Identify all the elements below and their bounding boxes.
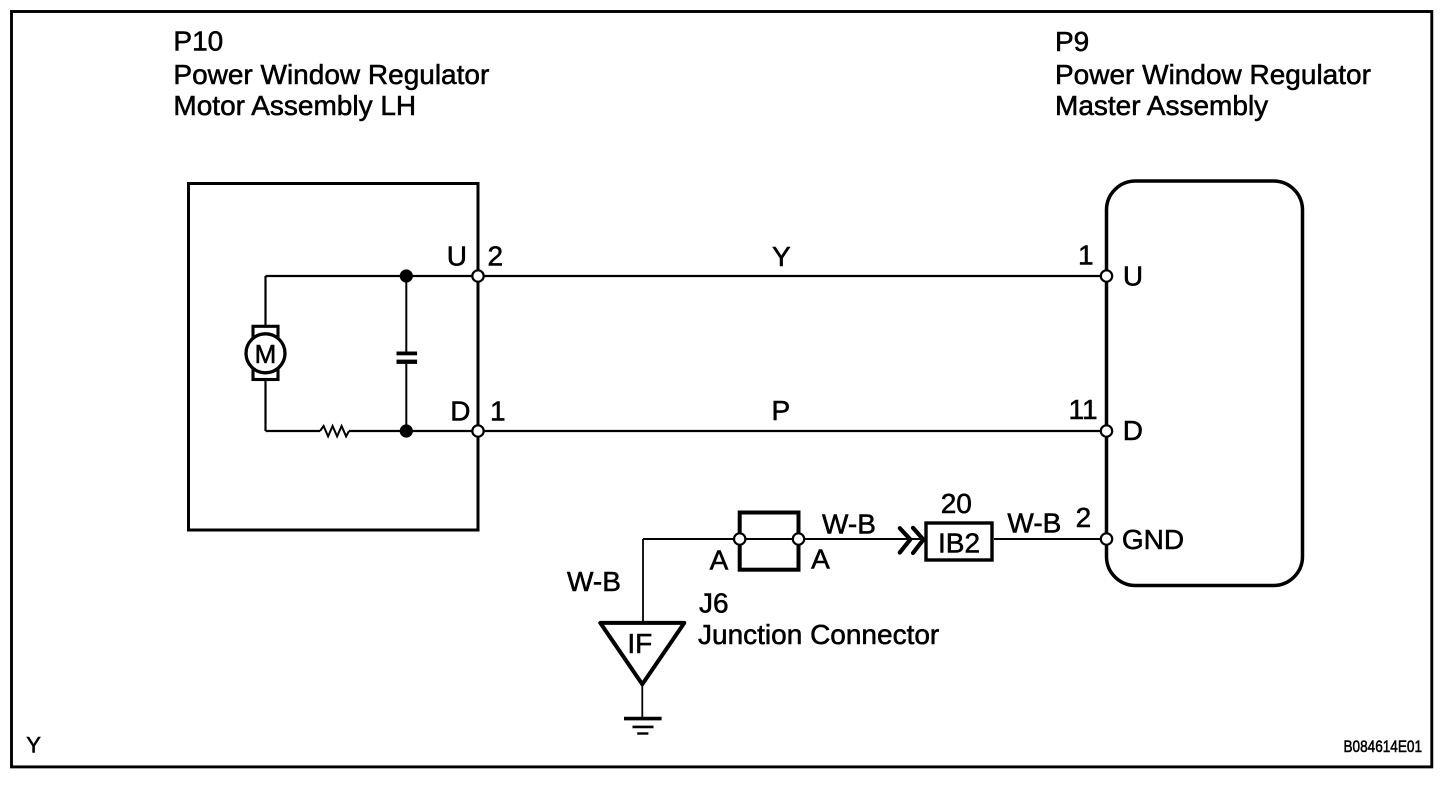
svg-text:20: 20 xyxy=(941,488,972,519)
svg-text:2: 2 xyxy=(488,241,504,272)
svg-text:W-B: W-B xyxy=(567,566,621,597)
svg-text:B084614E01: B084614E01 xyxy=(1344,738,1423,756)
svg-text:GND: GND xyxy=(1122,524,1184,555)
svg-text:1: 1 xyxy=(1078,240,1094,271)
svg-text:Junction Connector: Junction Connector xyxy=(698,619,939,650)
svg-text:Power Window Regulator: Power Window Regulator xyxy=(173,59,489,90)
connector P9 rounded box xyxy=(1107,181,1303,586)
svg-text:Y: Y xyxy=(26,733,41,758)
motor M circle xyxy=(246,334,285,373)
junction dot bottom xyxy=(400,424,413,437)
svg-text:D: D xyxy=(1123,415,1143,446)
ground bar 3 xyxy=(637,732,648,734)
connector P10 title xyxy=(173,26,489,121)
svg-text:2: 2 xyxy=(1076,502,1092,533)
wire: motor branch left vertical xyxy=(264,276,266,431)
svg-text:W-B: W-B xyxy=(1007,508,1061,539)
wire P (pin 1 to pin 11) xyxy=(478,430,1107,432)
capacitor wire bottom xyxy=(405,364,407,431)
pin U/2 circle on P10 xyxy=(472,270,483,281)
ground triangle IF xyxy=(600,623,684,684)
connector P9 title xyxy=(1055,26,1371,121)
pin 1/U circle on P9 xyxy=(1101,270,1112,281)
svg-text:U: U xyxy=(1123,261,1143,292)
svg-text:IF: IF xyxy=(627,628,652,659)
shield chevrons xyxy=(900,528,911,552)
svg-text:A: A xyxy=(811,544,830,575)
junction dot top xyxy=(400,269,413,282)
svg-text:W-B: W-B xyxy=(822,509,876,540)
svg-text:M: M xyxy=(255,339,277,369)
pin A left circle xyxy=(734,533,745,544)
wire W-B riser xyxy=(642,539,644,623)
svg-text:1: 1 xyxy=(490,396,506,427)
svg-text:Power Window Regulator: Power Window Regulator xyxy=(1055,59,1371,90)
ground bar 1 xyxy=(624,717,662,721)
svg-text:D: D xyxy=(450,396,470,427)
svg-text:Master Assembly: Master Assembly xyxy=(1055,90,1268,121)
svg-text:IB2: IB2 xyxy=(938,528,980,559)
capacitor wire top xyxy=(405,276,407,352)
motor M brushes xyxy=(253,326,278,379)
svg-text:J6: J6 xyxy=(699,588,729,619)
svg-text:Y: Y xyxy=(772,241,791,272)
resistor (zigzag) xyxy=(320,426,349,436)
svg-text:U: U xyxy=(447,241,467,272)
wire Y (pin 2 to pin 1) xyxy=(478,275,1107,277)
pin 11/D circle on P9 xyxy=(1101,425,1112,436)
wire W-B ground run xyxy=(643,538,924,540)
wire: bottom wire inside P10 (to pin 1), with resistor gap xyxy=(266,430,321,432)
svg-text:P: P xyxy=(772,395,791,426)
pin 2/GND circle on P9 xyxy=(1101,533,1112,544)
wire: top wire inside P10 (to pin 2) xyxy=(266,275,479,277)
svg-text:11: 11 xyxy=(1069,394,1098,425)
pin D/1 circle on P10 xyxy=(472,425,483,436)
splice IB2 box xyxy=(926,523,992,560)
connector P10 box xyxy=(189,184,479,531)
capacitor C plates xyxy=(397,352,418,356)
svg-text:P9: P9 xyxy=(1055,26,1089,57)
pin A right circle xyxy=(793,533,804,544)
svg-text:A: A xyxy=(710,545,729,576)
junction connector J6 box xyxy=(740,513,799,570)
svg-text:Motor Assembly LH: Motor Assembly LH xyxy=(173,90,416,121)
svg-text:P10: P10 xyxy=(173,26,223,57)
ground stem xyxy=(641,685,643,718)
ground bar 2 xyxy=(633,726,654,729)
